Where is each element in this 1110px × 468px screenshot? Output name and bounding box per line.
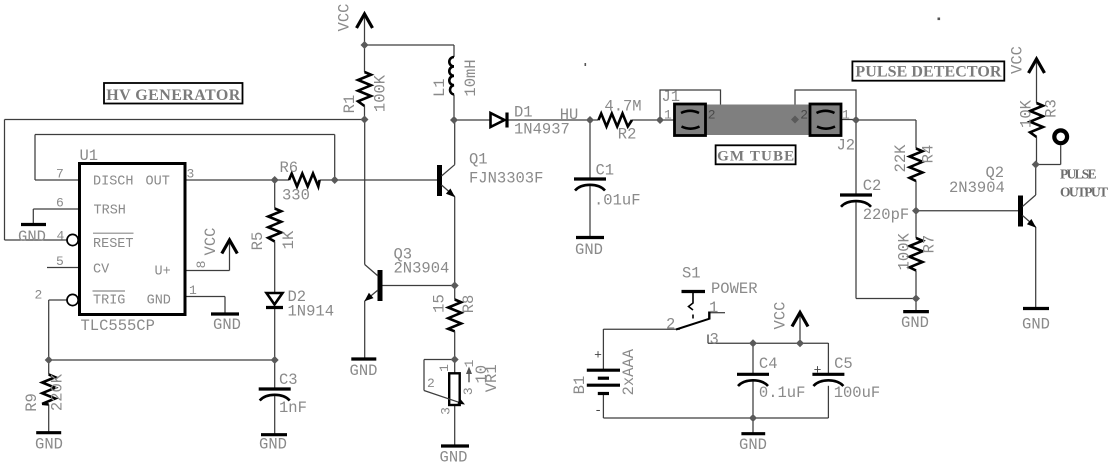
wire C2 top lead [855,120,857,195]
svg-text:1: 1 [709,299,718,317]
connector J2 top contact [817,111,835,113]
svg-text:0.1uF: 0.1uF [759,384,806,402]
transistor Q2 emitter lead [1023,216,1036,228]
diode D1 cathode bar [505,113,508,128]
pulse output terminal [1054,130,1067,143]
svg-text:R7: R7 [921,235,939,254]
transistor Q2 emitter arrow [1027,219,1036,228]
transistor Q3 collector lead [365,265,378,277]
svg-text:15: 15 [431,294,449,313]
wire R4 bottom lead [915,181,917,211]
wire VR1 pin3 to ground [454,405,456,446]
svg-text:R9: R9 [23,393,41,412]
svg-text:R8: R8 [460,295,478,314]
resistor R4 [910,149,923,182]
wire node to Q1 base [335,179,437,181]
ground C1 [576,236,604,239]
wire loop down to R6 right node [334,135,336,181]
transistor Q1 emitter arrow [446,189,455,198]
wire left edge vertical [4,120,6,241]
power flag VCC battery arrow [792,313,808,327]
wire C3 bottom lead [274,395,276,435]
svg-text:C3: C3 [279,371,298,389]
wire C2 bottom lead [855,201,857,298]
transistor Q3 base bar [378,270,383,301]
wire R3 bottom lead [1036,137,1038,165]
wire pin 1 ground stem [224,297,226,315]
svg-text:R5: R5 [249,232,267,251]
svg-text:RESET: RESET [93,237,134,252]
wire R7 ground stem [915,299,917,312]
wire J2 pin2 stub [795,119,810,121]
wire C1 top lead [589,120,591,179]
wire pin 8 vcc stem [229,241,231,271]
capacitor C5 curved plate [813,380,843,386]
svg-text:VCC: VCC [1009,46,1027,74]
ground Q2 [1023,307,1049,310]
node junction C4 ground rail [749,414,757,422]
node junction R7-C2-gnd [912,295,920,303]
wire vcc3 arrow stem to R3 [1036,59,1038,103]
svg-text:22K: 22K [892,144,910,173]
diode D2 cathode bar [266,306,283,309]
capacitor C4 curved plate [738,380,768,386]
ground pin6 TRSH [21,223,46,226]
wire R8 bottom to node [454,331,456,359]
wire R2 to J1 node [632,119,660,121]
capacitor C2 curved plate [841,201,871,207]
node junction R3-output [1032,161,1040,169]
svg-text:GND: GND [739,436,767,454]
transistor Q1 collector lead [442,165,455,176]
svg-text:-: - [594,403,602,418]
wire switch pin3 tick [707,335,709,344]
resistor R6 [289,174,320,187]
wire C4 ground stem [752,418,754,434]
svg-text:+: + [814,363,822,378]
switch S1 pin1 contact [708,312,710,320]
svg-text:L1: L1 [431,78,449,97]
svg-text:FJN3303F: FJN3303F [469,170,543,188]
svg-text:R3: R3 [1043,99,1061,118]
wire R1 bottom [364,106,366,120]
wire pin 7 loop vertical [34,135,36,181]
svg-text:VCC: VCC [772,302,790,330]
svg-text:5: 5 [56,254,64,269]
node junction D2-C3 [271,356,279,364]
svg-text:C2: C2 [863,177,882,195]
capacitor C3 curved plate [260,395,290,401]
wire left rail from pin4 loop to R1 bottom [5,119,365,121]
wire R6 right to node [320,179,335,181]
pin 4 bubble [67,234,78,245]
svg-text:2: 2 [666,316,675,334]
connector J2 bottom contact [817,127,835,129]
wire C2 bottom to R7 node [856,298,916,300]
node junction R4-R7-Q2 [912,207,920,215]
wire D2 cathode down [274,309,276,360]
node junction R8-VR1 [451,356,459,364]
svg-text:220K: 220K [48,373,66,411]
potentiometer VR1 body [449,373,460,405]
wire trig rail [49,359,275,361]
potentiometer VR1 wiper arrow [458,398,466,404]
ground C3 [261,433,287,436]
svg-text:GND: GND [1022,316,1050,334]
wire pin 2 vertical [48,300,50,360]
wire vcc1 arrow stem [364,15,366,45]
svg-text:TRIG: TRIG [93,294,125,309]
svg-text:2N3904: 2N3904 [394,260,450,278]
svg-text:GND: GND [259,436,287,454]
GM TUBE label box [716,145,796,164]
svg-text:3: 3 [438,407,453,415]
svg-text:VCC: VCC [202,228,220,256]
svg-text:J1: J1 [662,88,681,106]
ground R9 [36,431,61,434]
resistor R5 [268,209,281,242]
node junction Q1e-Q3b-R8 [451,282,459,290]
transistor Q3 emitter arrow [364,293,373,302]
wire vcc2 arrow stem [799,313,801,343]
switch S1 actuator [689,292,694,319]
svg-text:D1: D1 [514,104,533,122]
svg-text:DISCH: DISCH [93,175,134,190]
transistor Q1 base bar [437,165,442,196]
connector J1 top contact [681,111,699,113]
svg-text:R4: R4 [920,145,938,164]
svg-text:+: + [594,348,602,363]
svg-text:B1: B1 [571,376,589,395]
wire R9 top lead [48,360,50,375]
wire pin 6 ground stem [32,209,34,225]
wire C5 top lead [827,343,829,374]
svg-text:8: 8 [194,260,209,268]
wire Q2 emitter to ground [1035,227,1037,309]
svg-text:7: 7 [56,167,64,182]
wire J2 connector frame [795,90,856,120]
wire L1 bottom lead [453,95,455,121]
wire ground rail bottom [603,417,828,419]
node junction R2-J1 [656,116,664,124]
svg-text:S1: S1 [682,265,701,283]
ground R7 [903,310,929,313]
battery B1 plate2 [598,377,609,380]
capacitor C1 curved plate [575,185,605,191]
svg-text:OUTPUT: OUTPUT [1060,184,1108,199]
wire J1 pin2 stub [706,119,721,121]
switch S1 button [682,290,706,293]
node HU junction [586,116,594,124]
svg-text:HV GENERATOR: HV GENERATOR [106,87,240,104]
svg-text:U+: U+ [155,265,171,280]
wire battery top lead [602,329,604,370]
svg-text:220pF: 220pF [863,206,910,224]
wire R7 top lead [915,211,917,238]
node junction vcc2 [796,339,804,347]
resistor R8 [448,300,461,332]
wire Q1 collector vertical [454,120,456,165]
connector J1 bottom contact [682,127,700,129]
power flag VCC pulse arrow [1029,59,1045,73]
wire Q2 base [916,210,1018,212]
wire VR1 wiper horizontal [424,359,455,361]
wire Q1 emitter vertical [454,197,456,286]
wire J2 pin1 stub [841,119,856,121]
wire R1 node down to Q3 collector [364,120,366,265]
wire pin 7 loop top [35,134,335,136]
wire vcc to R1 top [364,45,366,72]
wire pin 2 stub [49,299,67,301]
svg-text:GM TUBE: GM TUBE [717,149,794,165]
transistor Q3 emitter lead [365,290,378,301]
wire C1 bottom lead to ground [589,185,591,238]
HV GENERATOR title box [104,83,243,104]
node junction S1-C4 [749,339,757,347]
svg-text:GND: GND [35,436,63,454]
ground C4 [741,432,765,435]
wire R7 bottom lead [915,271,917,299]
svg-text:TLC555CP: TLC555CP [81,317,155,335]
svg-text:OUT: OUT [146,175,170,190]
svg-text:1: 1 [842,108,850,123]
ground pin1 U1 [211,312,239,315]
wire VR1 wiper vertical [423,360,425,391]
connector J2 body [810,104,841,136]
svg-text:GND: GND [213,316,241,334]
svg-text:R6: R6 [280,159,299,177]
resistor R3 [1030,103,1043,137]
svg-text:GND: GND [440,449,468,467]
wire battery bottom lead [602,395,604,418]
switch S1 lever [676,319,710,330]
capacitor C2 plate [840,193,872,196]
svg-text:C5: C5 [834,355,853,373]
wire pin 7 stub [35,179,78,181]
wire C5 bottom lead [827,386,829,418]
wire node to D1 anode [454,119,491,121]
PULSE DETECTOR title box [852,61,1004,80]
svg-text:10mH: 10mH [462,59,480,96]
node junction L1-D1 [450,116,458,124]
svg-text:GND: GND [350,362,378,380]
svg-text:1: 1 [664,108,672,123]
wire node to R8 top [454,286,456,300]
ground VR1 [441,444,469,447]
svg-text:R2: R2 [618,126,637,144]
battery B1 plate4 [598,392,609,395]
svg-text:1: 1 [189,283,197,298]
node junction J2 frame left [791,116,799,124]
wire OUT pin 3 to R6 [184,179,289,181]
svg-text:.01uF: .01uF [594,192,641,210]
battery B1 plate1 [587,369,620,372]
op-amp U1 555 timer box [80,164,186,315]
capacitor C4 plate [737,373,769,376]
wire vcc top rail to L1 [365,44,455,46]
wire HU node to R2 [590,119,599,121]
wire C4 top lead [752,343,754,374]
svg-text:6: 6 [56,196,64,211]
power flag VCC pin8 arrow [222,240,238,254]
stray speck top right [938,18,941,21]
capacitor C1 plate [574,177,606,180]
node junction OUT-R6-R5 [271,176,279,184]
wire C3 top lead [274,360,276,389]
wire pin 6 stub [33,208,78,210]
wire node to pulse output [1036,164,1061,166]
svg-text:2: 2 [35,288,43,303]
svg-text:100K: 100K [372,74,390,112]
svg-text:VR1: VR1 [483,364,501,392]
node junction vcc1-L1 [361,41,369,49]
node junction pin2-R9 [45,356,53,364]
wire D1 cathode to HU node [508,119,590,121]
VR1 legend arrow [468,372,470,382]
svg-text:2: 2 [708,108,716,123]
node junction R1 bottom [361,116,369,124]
svg-text:3: 3 [187,167,195,182]
svg-text:2: 2 [427,376,435,391]
svg-text:1nF: 1nF [279,399,307,417]
capacitor C5 plate [812,373,844,376]
transistor Q1 emitter lead [442,185,455,197]
wire pin 5 stub [47,267,78,269]
wire switch pin2 to battery [603,328,680,330]
resistor R1 [358,72,371,106]
wire R4 top lead [915,120,917,149]
svg-text:10K: 10K [1018,99,1036,128]
inductor L1 [449,57,454,95]
wire pulse output terminal lead [1060,145,1062,164]
wire pin 8 stub [184,270,230,272]
svg-text:GND: GND [18,228,46,246]
svg-text:HU: HU [560,106,579,124]
svg-text:C4: C4 [759,355,778,373]
svg-text:R1: R1 [341,95,359,114]
VR1 legend arrowhead [466,367,472,375]
svg-text:1: 1 [437,364,452,372]
svg-text:J2: J2 [837,136,856,154]
wire pin 1 stub [184,296,225,298]
wire J1 pin1 stub [660,119,675,121]
svg-text:4.7M: 4.7M [604,98,641,116]
pin 2 bubble [67,294,78,305]
svg-text:3: 3 [710,331,719,349]
diode D2 [267,293,283,305]
svg-text:Q1: Q1 [469,151,488,169]
resistor R9 [42,375,55,405]
svg-text:C1: C1 [596,162,615,180]
capacitor C3 plate [259,387,291,390]
wire to pin 4 bubble [5,239,68,241]
wire Q2 collector vertical [1035,165,1037,196]
wire J2 to R4 [856,119,916,121]
resistor R2 [599,114,633,127]
diode D1 [491,113,505,127]
svg-text:100K: 100K [896,233,914,271]
wire J1 connector frame [660,90,721,120]
TRIG overline [93,290,126,292]
svg-text:GND: GND [901,314,929,332]
wire Q3 emitter to ground [364,301,366,359]
svg-text:GND: GND [575,241,603,259]
ground Q3 [351,357,376,360]
wire R5 bottom to D2 anode [274,242,276,294]
node junction J2 pin1 [852,116,860,124]
svg-text:100uF: 100uF [834,384,881,402]
svg-text:PULSE: PULSE [1060,166,1097,181]
potentiometer VR1 wiper [424,391,462,404]
transistor Q2 collector lead [1023,195,1036,207]
node junction R6-loop-Q1 [331,176,339,184]
svg-text:PULSE DETECTOR: PULSE DETECTOR [855,64,1001,81]
svg-text:TRSH: TRSH [94,204,126,219]
wire L1 top lead [453,45,455,57]
resistor R7 [910,238,923,271]
svg-text:VCC: VCC [336,4,354,32]
svg-text:330: 330 [282,187,310,205]
svg-text:U1: U1 [80,147,99,165]
svg-text:1K: 1K [280,230,298,249]
GM tube body [690,105,826,136]
svg-text:GND: GND [147,294,171,309]
svg-text:1N914: 1N914 [288,303,335,321]
transistor Q2 base bar [1018,196,1023,227]
svg-text:POWER: POWER [711,280,758,298]
svg-text:3: 3 [461,387,476,395]
wire R6 node to R5 top [274,180,276,209]
svg-text:2N3904: 2N3904 [949,179,1005,197]
svg-text:4: 4 [57,229,65,244]
wire C4 bottom lead [752,381,754,418]
power flag VCC top-left arrow [357,14,373,28]
wire switch pin3 rail [708,342,828,344]
wire Q3 base [383,285,455,287]
svg-text:2xAAA: 2xAAA [620,348,638,395]
wire node to VR1 pin1 [454,360,456,374]
RESET overline [93,232,134,234]
svg-text:2: 2 [800,108,808,123]
wire R9 bottom lead [48,405,50,433]
battery B1 plate3 [587,384,620,387]
connector J1 body [675,104,706,136]
stray speck middle [585,63,587,66]
svg-text:CV: CV [93,263,110,278]
wire switch pin1 stub [709,312,725,314]
